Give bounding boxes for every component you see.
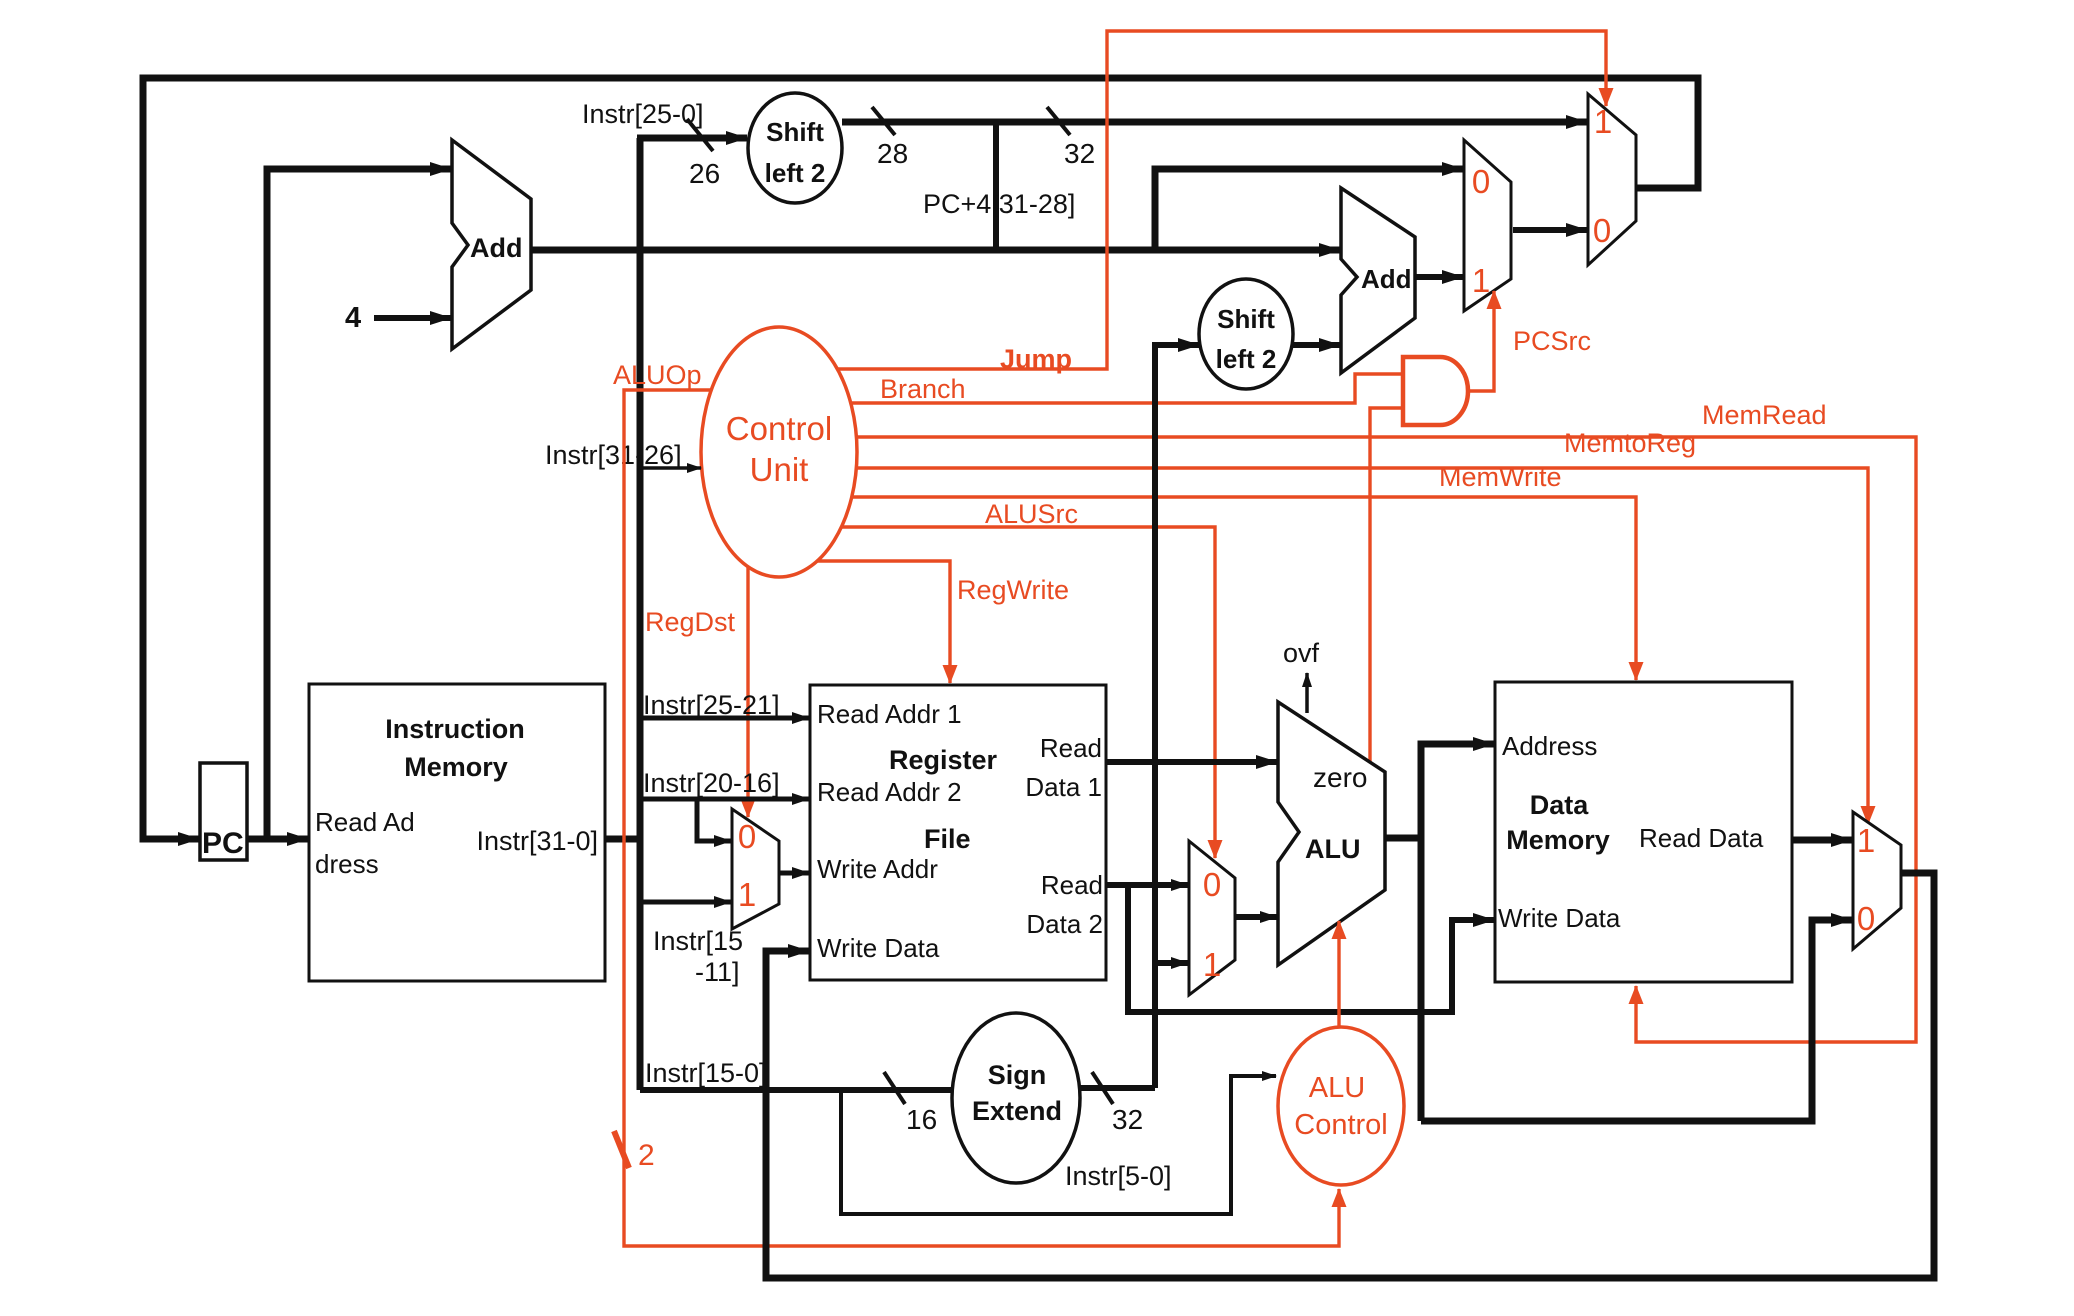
mux jump [1588, 94, 1636, 265]
svg-text:RegWrite: RegWrite [957, 575, 1069, 605]
svg-text:32: 32 [1112, 1104, 1143, 1135]
svg-text:0: 0 [1472, 163, 1490, 200]
svg-text:ALUOp: ALUOp [613, 360, 702, 390]
svg-text:16: 16 [906, 1104, 937, 1135]
svg-text:0: 0 [1203, 866, 1221, 903]
svg-text:Write Addr: Write Addr [817, 854, 938, 884]
svg-text:0: 0 [1857, 900, 1875, 937]
svg-text:Sign: Sign [988, 1060, 1047, 1090]
wire: Read Data 1 to ALU [1106, 759, 1277, 765]
svg-text:ALU: ALU [1305, 834, 1361, 864]
svg-text:Control: Control [1294, 1109, 1388, 1141]
svg-text:Memory: Memory [404, 752, 508, 782]
svg-text:Read Ad: Read Ad [315, 807, 415, 837]
svg-text:4: 4 [345, 302, 361, 334]
svg-text:left 2: left 2 [1216, 344, 1277, 374]
and gate (branch AND zero) [1403, 357, 1468, 425]
svg-text:left 2: left 2 [765, 158, 826, 188]
wire: ALU result to Data Memory Address [1385, 744, 1494, 1121]
svg-text:Memory: Memory [1506, 825, 1610, 855]
svg-text:dress: dress [315, 849, 379, 879]
wire: branch mux output to jump mux input 0 [1513, 227, 1587, 233]
svg-text:Add: Add [470, 233, 522, 263]
svg-text:1: 1 [1203, 946, 1221, 983]
svg-text:Instr[25-21]: Instr[25-21] [643, 690, 780, 720]
svg-text:Read Addr 2: Read Addr 2 [817, 777, 962, 807]
svg-text:Shift: Shift [766, 117, 824, 147]
signal wire MemWrite [852, 497, 1636, 680]
svg-text:zero: zero [1313, 762, 1367, 793]
svg-text:1: 1 [1472, 262, 1490, 299]
bus width slash 32 (sign extend) [1092, 1072, 1143, 1135]
sign extend ellipse [952, 1013, 1080, 1183]
svg-text:ALUSrc: ALUSrc [985, 499, 1078, 529]
svg-text:Register: Register [889, 745, 998, 775]
wire: ALU result to MemtoReg mux input 0 [1421, 920, 1852, 1121]
svg-text:Read Data: Read Data [1639, 823, 1764, 853]
constant 4 input wire to Add [374, 315, 451, 321]
signal wire Branch to AND gate [851, 374, 1401, 403]
svg-text:Instruction: Instruction [385, 714, 525, 744]
svg-text:Write Data: Write Data [1498, 903, 1621, 933]
svg-text:ALU: ALU [1309, 1072, 1365, 1104]
wire: Instr[15-0] to sign extend [640, 1087, 952, 1093]
wire: Instr[25-0] to Shift left 2 [637, 135, 747, 142]
svg-text:0: 0 [1593, 212, 1611, 249]
svg-text:1: 1 [738, 876, 756, 913]
svg-text:Jump: Jump [1000, 344, 1072, 374]
wire: ovf output arrow [1305, 673, 1309, 713]
svg-text:Branch: Branch [880, 374, 966, 404]
adder Add (PC+4) [452, 140, 531, 349]
bus width slash 28 [872, 107, 908, 169]
wire: sign extended value to ALUSrc mux input 1 [1155, 960, 1188, 966]
svg-text:Address: Address [1502, 731, 1597, 761]
wire: Read Data 2 tap to Data Memory Write Data [1128, 885, 1494, 1012]
svg-text:File: File [924, 824, 971, 854]
wire: Read Data 2 to ALUSrc mux input 0 [1106, 882, 1188, 888]
svg-text:Add: Add [1361, 264, 1412, 294]
svg-text:Instr[31-0]: Instr[31-0] [476, 826, 598, 856]
mux ALUSrc [1189, 841, 1235, 995]
alu main [1278, 702, 1385, 965]
svg-text:Instr[31-26]: Instr[31-26] [545, 440, 682, 470]
shift left 2 (branch) [1199, 279, 1293, 389]
svg-text:1: 1 [1857, 822, 1875, 859]
signal wire RegWrite [817, 561, 950, 683]
svg-text:RegDst: RegDst [645, 607, 736, 637]
bus width slash 26 [687, 119, 720, 189]
signal wire MemtoReg [856, 468, 1868, 824]
svg-text:PC: PC [202, 827, 244, 860]
bus width slash 32 [1047, 107, 1095, 169]
svg-text:PC+4[31-28]: PC+4[31-28] [923, 189, 1075, 219]
wire: Instr[15-11] to RegDst mux input 1 [640, 900, 731, 905]
svg-text:1: 1 [1594, 103, 1612, 140]
svg-text:Read: Read [1041, 870, 1103, 900]
svg-text:Instr[15: Instr[15 [653, 926, 743, 956]
svg-text:ovf: ovf [1283, 638, 1320, 668]
svg-text:Read Addr 1: Read Addr 1 [817, 699, 962, 729]
svg-text:Data 2: Data 2 [1026, 909, 1103, 939]
svg-text:Instr[25-0]: Instr[25-0] [582, 99, 704, 129]
svg-text:PCSrc: PCSrc [1513, 326, 1591, 356]
data memory box [1495, 682, 1792, 982]
svg-text:32: 32 [1064, 138, 1095, 169]
svg-text:Data 1: Data 1 [1025, 772, 1102, 802]
control unit ellipse [701, 327, 857, 577]
wire: PC feedback loop from jump mux output around top/left border into PC [143, 78, 1698, 839]
bus width slash 2 on ALUOp (orange) [614, 1131, 655, 1172]
signal wire Jump [837, 31, 1606, 369]
wire: branch Add output to branch mux input 1 [1415, 274, 1463, 280]
wire: write-back from MemtoReg mux to register Write Data [766, 873, 1934, 1278]
instruction memory box [309, 684, 605, 981]
signal wire ALUOp to ALU Control [624, 390, 1339, 1246]
wire: RegDst mux output to Write Addr [779, 871, 809, 876]
signal wire RegDst [746, 567, 749, 817]
svg-text:Instr[15-0]: Instr[15-0] [645, 1058, 767, 1088]
signal wire ALUSrc [842, 527, 1215, 858]
svg-text:MemRead: MemRead [1702, 400, 1827, 430]
wire: Instr[25-21] to Read Addr 1 [640, 716, 809, 721]
svg-text:2: 2 [638, 1139, 655, 1172]
signal wire MemRead [856, 437, 1916, 1042]
wire: ALUSrc mux output to ALU [1235, 914, 1277, 920]
wire: zero flag from ALU up to AND gate [1370, 408, 1401, 762]
wire: Add output PC+4 bus to second Add [531, 247, 1340, 254]
adder Add (branch target) [1341, 188, 1415, 373]
svg-text:Control: Control [726, 410, 832, 447]
svg-text:Shift: Shift [1217, 304, 1275, 334]
svg-text:Unit: Unit [750, 451, 809, 488]
wire: AND gate output PCSrc to branch mux [1468, 291, 1494, 391]
svg-text:Write Data: Write Data [817, 933, 940, 963]
wire: Instr[31-0] from instruction memory to bus [605, 836, 643, 843]
bus width slash 16 [884, 1072, 937, 1135]
mux branch (PCSrc) [1464, 140, 1511, 311]
svg-text:Instr[20-16]: Instr[20-16] [643, 768, 780, 798]
svg-text:MemtoReg: MemtoReg [1564, 428, 1696, 458]
wire: Instr[20-16] to Read Addr 2 [640, 797, 809, 802]
svg-text:Data: Data [1530, 790, 1590, 820]
svg-text:MemWrite: MemWrite [1439, 462, 1562, 492]
svg-text:Instr[5-0]: Instr[5-0] [1065, 1161, 1172, 1191]
wire: Instr[5-0] to ALU control [841, 1076, 1276, 1214]
wire: Instr[20-16] tap to RegDst mux input 0 [697, 799, 731, 841]
mux RegDst (write register select) [732, 809, 779, 929]
svg-text:Extend: Extend [972, 1096, 1062, 1126]
wire: PC+4 tap up to branch mux input 0 [1155, 169, 1463, 253]
wire: Data Memory Read Data to MemtoReg mux input 1 [1792, 837, 1852, 844]
register file box [810, 685, 1106, 980]
svg-text:28: 28 [877, 138, 908, 169]
label: Instr[15-11] (two lines) [653, 926, 743, 987]
wire: shift left 2 output (28/32 bit) to jump mux input 1 [842, 119, 1587, 126]
svg-text:0: 0 [738, 818, 756, 855]
pc register PC [200, 763, 247, 860]
wire: instruction bus vertical [637, 138, 644, 1090]
wire: sign extend output 32-bit up to shift left 2 (branch) [1080, 345, 1199, 1088]
wire: PC+4[31-28] junction vertical [993, 122, 999, 253]
svg-text:26: 26 [689, 158, 720, 189]
shift left 2 (jump) [748, 93, 842, 203]
mux MemtoReg [1853, 812, 1901, 949]
wire: Instr[31-26] into control unit [640, 466, 701, 470]
wire: PC output to Instruction Memory Read Address [247, 836, 308, 843]
wire: PC output tap up to Add (PC+4) top input [267, 169, 451, 842]
svg-text:Read: Read [1040, 733, 1102, 763]
svg-text:-11]: -11] [695, 957, 740, 987]
wire: shift left 2 output to branch Add [1292, 342, 1340, 348]
wire: ALU control output to ALU [1337, 921, 1340, 1027]
alu control ellipse [1278, 1027, 1404, 1185]
